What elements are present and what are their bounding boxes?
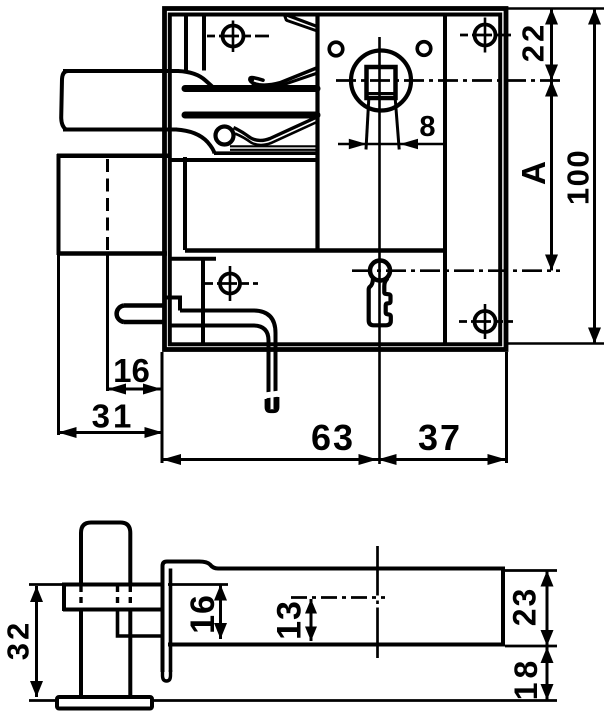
lock case inner plate rectangle (170, 15, 500, 345)
svg-text:8: 8 (419, 111, 435, 143)
extension line hidden-edge down to dim 16 (106, 252, 109, 391)
arrow 37 right (488, 454, 507, 465)
extension line plate-left down to dim 31 (57, 253, 60, 435)
dimension line 16 (108, 388, 162, 391)
dimension line 22 (550, 9, 553, 81)
svg-text:A: A (516, 161, 553, 185)
dimension line 63 / 37 (162, 458, 507, 461)
slot line A (upper bolt-tail slot) (185, 85, 317, 92)
locking bar tab above wall (164, 298, 180, 311)
lower spring straight arm (double line) (230, 145, 318, 147)
screw hole top-left (223, 26, 244, 47)
case right end (plan) (501, 567, 505, 647)
extension line top-right (508, 7, 604, 10)
knob/bolt plan outline (81, 523, 130, 587)
arrow 8 left (349, 139, 367, 149)
vertical centerline (plan) (376, 546, 379, 596)
svg-text:18: 18 (508, 657, 544, 701)
faceplate left line with bracket top and step (163, 562, 504, 673)
faceplate right line (169, 569, 173, 673)
dimension line 23 (plan) (546, 571, 549, 647)
svg-text:31: 31 (92, 398, 135, 435)
arrow 16 left (108, 384, 127, 395)
backplate strip top extension (29, 583, 64, 586)
leg tip end (267, 397, 278, 411)
hidden bolt edge (dashed) behind plate (106, 159, 109, 252)
bolt tail upper hump (178, 71, 214, 89)
svg-text:23: 23 (507, 587, 543, 627)
base plate at bottom (57, 697, 152, 709)
extension line case-right down to dim 37 (505, 352, 508, 463)
backplate strip top line (62, 583, 161, 587)
lower spring S-leaf (234, 117, 319, 141)
compartment vertical V0 lower segment (183, 157, 187, 250)
bolt stem bottom line (63, 128, 177, 132)
lower spring coil eye (216, 127, 234, 145)
dimension line A (550, 81, 553, 271)
bolt-tail slot bottom line (214, 151, 318, 155)
spring anchor wall vertical (315, 14, 319, 250)
locking bar outer capsule top line (124, 303, 164, 308)
small rivet circle left (329, 42, 343, 56)
horizontal centerline through keyhole (352, 269, 560, 272)
arrow 63 right (359, 454, 378, 465)
extension line 32/18 bottom left (29, 699, 57, 702)
locking bar capsule left cap (117, 306, 124, 323)
mounting plate bottom edge (57, 251, 167, 256)
dimension line 100 (593, 9, 596, 344)
compartment vertical V1 upper segment (202, 15, 206, 71)
dimension line 8 (338, 143, 446, 146)
screw hole bottom-left (220, 274, 240, 294)
arrow 31 left (58, 427, 77, 438)
compartment divider line lower (170, 257, 216, 261)
locking bar outer capsule bottom line (124, 320, 164, 325)
dimension line 18 (plan) (546, 646, 549, 701)
square inner chord line (368, 92, 394, 95)
arrow 16 right (143, 384, 162, 395)
svg-text:13: 13 (271, 600, 309, 640)
mounting plate left edge (57, 154, 61, 255)
arrow 8 right (400, 139, 418, 149)
keyhole circle (370, 261, 390, 281)
follower big circle (351, 51, 411, 111)
bolt stem top line (63, 69, 179, 73)
stem below strip (118, 610, 163, 637)
upper section bottom line (171, 158, 318, 162)
extension line bottom-right (508, 342, 604, 345)
svg-text:16: 16 (184, 594, 222, 634)
keyhole shaft with notched right side (369, 279, 391, 325)
small rivet circle right (417, 42, 431, 56)
spindle-width extension line left (366, 99, 369, 150)
backplate strip bottom line (63, 608, 161, 612)
slot line B (lower bolt-tail slot) (185, 112, 317, 119)
screw hole top-right (475, 25, 496, 46)
upper spring top leaf (diagonal pair) (285, 14, 317, 26)
bolt tail lower hump (176, 130, 215, 154)
bolt plan lower part (79, 608, 83, 697)
screw hole bottom-right (475, 311, 496, 332)
horizontal centerline (plan) (291, 596, 385, 599)
extension line 23 top (505, 569, 557, 572)
svg-text:32: 32 (1, 620, 36, 660)
spindle-width extension line right (395, 99, 399, 150)
locking bar inner top edge and corner into leg (180, 311, 276, 410)
extension line case-left down to dim 63 (161, 352, 164, 463)
square spindle hole (367, 67, 396, 98)
svg-text:37: 37 (418, 417, 462, 458)
arrow 63 left (162, 454, 181, 465)
dimension line 31 (58, 431, 163, 434)
lock case outer rectangle (165, 9, 507, 350)
compartment vertical V1 lower segment (201, 260, 205, 343)
compartment divider line upper (185, 248, 445, 253)
bolt left end cap (61, 71, 68, 130)
locking bar inner bottom edge and inner corner (171, 326, 269, 410)
svg-text:16: 16 (113, 352, 150, 389)
arrow 37 left (378, 454, 397, 465)
extension line 16 top (plan) (168, 583, 228, 586)
bolt hidden edges through strip (dashed) (79, 586, 82, 608)
svg-text:100: 100 (561, 149, 596, 205)
faceplate bottom rounded end (163, 670, 171, 681)
leg tip white notch (265, 391, 280, 399)
upper spring lower arm with beak tip (250, 68, 317, 85)
mounting plate top edge (57, 154, 171, 159)
svg-text:22: 22 (516, 22, 551, 62)
vertical centerline through follower and keyhole (378, 37, 381, 464)
case bottom edge (plan) (168, 643, 503, 647)
horizontal centerline through follower (336, 79, 560, 82)
dimension line 13 (plan) (310, 599, 313, 641)
compartment vertical V0 upper segment (184, 15, 188, 71)
extension line bottom right long (152, 699, 557, 702)
backplate strip left end cap (62, 583, 66, 611)
dimension line 16 (plan) (219, 585, 222, 640)
dimension line 32 (35, 586, 38, 697)
inner plate right-edge vertical (443, 13, 447, 345)
svg-text:63: 63 (311, 417, 355, 458)
arrow 31 right (145, 427, 164, 438)
extension line 23/18 middle (505, 645, 557, 648)
